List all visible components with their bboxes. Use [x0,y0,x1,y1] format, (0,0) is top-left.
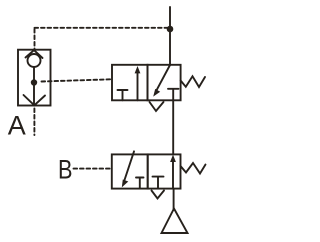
valve U1 body right square [148,65,181,101]
wire inside valve A [33,67,35,106]
node dot in valve A [31,79,37,85]
wire below valve U2 [173,189,175,210]
check valve A ball [28,54,41,67]
wire pilot line dashed top horizontal [35,27,168,29]
valve U1 spring [181,76,205,87]
svg-text:A: A [8,111,26,141]
valve U2 body left square [112,154,148,188]
valve U1 up arrow left square [137,72,139,100]
valve U1 diagonal flow path right square [157,65,171,90]
wire pilot line dashed to B [74,168,112,170]
wire pilot line dashed from A to valve 1 [42,79,112,81]
wire supply line top [169,7,171,65]
valve U1 blocked port T right [168,89,179,101]
valve U2 up arrow right square [172,161,174,189]
node junction dot [167,26,174,33]
valve U2 spring [181,163,206,174]
valve U2 exhaust notch [152,191,165,199]
valve U2 diagonal flow path left square [124,151,134,181]
exhaust triangle [162,209,188,234]
valve U2 body right square [148,154,181,188]
valve U1 blocked port T left [118,90,128,100]
check valve A body [18,50,51,106]
exhaust crow-foot in valve A [24,95,46,105]
valve U2 blocked port T right [153,177,164,189]
valve U1 exhaust notch [150,102,164,111]
valve U2 blocked port T left [136,178,144,189]
svg-text:B: B [58,154,73,184]
wire dashed stub below valve A [33,109,35,136]
valve U1 body left square [112,65,148,101]
wire between valves [172,100,174,154]
check valve A seat [26,50,43,58]
wire pilot line dashed down to valve A [34,29,36,49]
